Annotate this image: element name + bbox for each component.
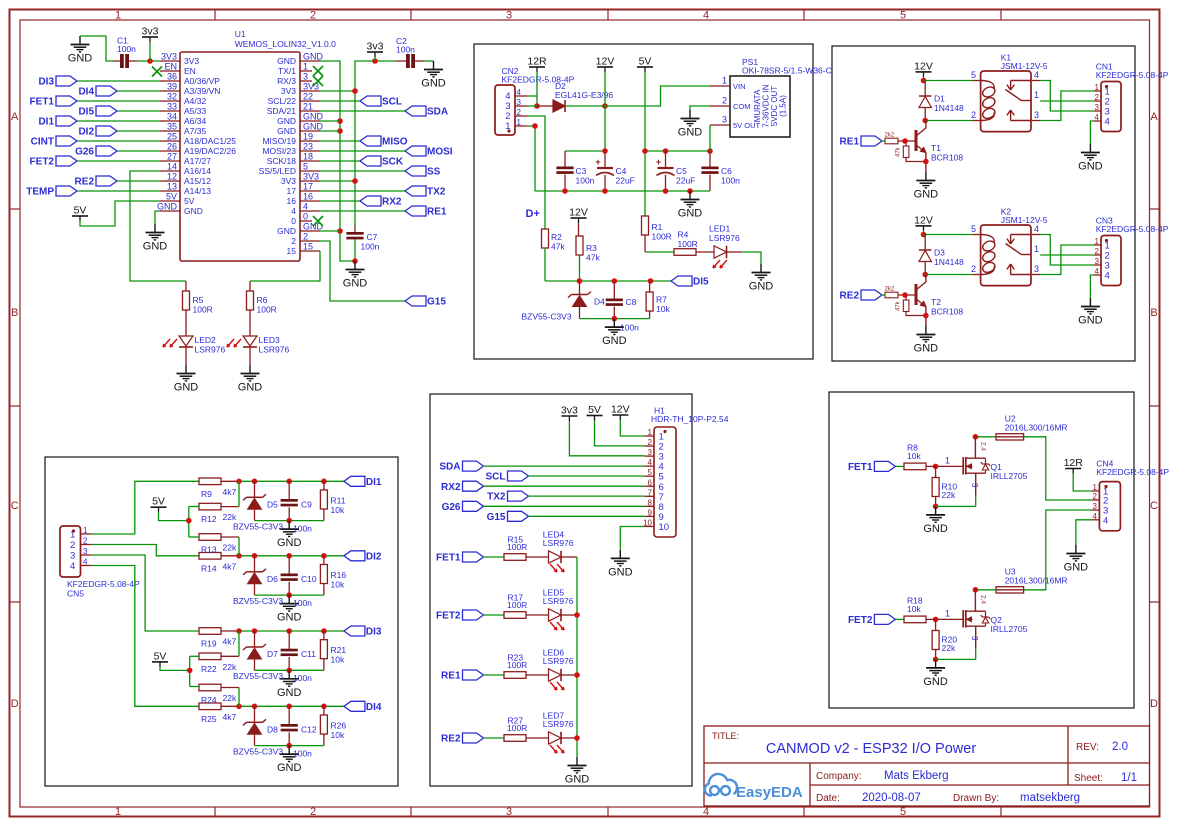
svg-text:0: 0 [291,216,296,226]
svg-text:3: 3 [517,98,522,107]
svg-text:18: 18 [303,152,313,162]
svg-text:R11: R11 [331,495,346,505]
svg-text:A3/39/VN: A3/39/VN [184,86,220,96]
svg-text:A5/33: A5/33 [184,106,206,116]
svg-text:DI3: DI3 [38,77,54,88]
svg-text:1/1: 1/1 [1121,772,1137,784]
svg-text:KF2EDGR-5.08-4P: KF2EDGR-5.08-4P [1096,70,1169,80]
svg-text:2: 2 [517,108,522,117]
svg-text:SDA/21: SDA/21 [267,106,297,116]
svg-text:12R: 12R [527,56,547,68]
svg-text:C12: C12 [301,724,317,734]
svg-text:10k: 10k [907,604,921,614]
svg-text:47k: 47k [551,242,565,252]
svg-text:WEMOS_LOLIN32_V1.0.0: WEMOS_LOLIN32_V1.0.0 [235,39,336,49]
svg-text:JSM1-12V-5: JSM1-12V-5 [1001,61,1048,71]
svg-text:DI4: DI4 [366,702,382,713]
svg-text:GND: GND [678,208,703,220]
svg-text:16: 16 [303,192,313,202]
svg-text:A4/32: A4/32 [184,96,206,106]
svg-text:LSR976: LSR976 [709,233,740,243]
svg-text:GND: GND [749,281,774,293]
svg-text:GND: GND [1064,562,1089,574]
svg-text:GND: GND [157,202,178,212]
svg-text:R7: R7 [656,295,667,305]
svg-text:C9: C9 [301,499,312,509]
svg-text:VIN: VIN [733,82,746,91]
svg-text:1: 1 [517,118,522,127]
svg-text:3V3: 3V3 [303,172,319,182]
svg-text:+: + [656,157,661,167]
svg-text:RE2: RE2 [840,291,860,302]
svg-text:Sheet:: Sheet: [1074,773,1103,784]
svg-text:14: 14 [167,162,177,172]
svg-text:26: 26 [167,142,177,152]
svg-text:47k: 47k [896,146,902,157]
svg-text:5: 5 [971,70,976,80]
svg-text:22k: 22k [223,543,237,553]
svg-text:LSR976: LSR976 [543,538,574,548]
svg-text:3: 3 [303,72,308,82]
svg-text:100R: 100R [507,600,527,610]
svg-text:2: 2 [303,232,308,242]
svg-text:R5: R5 [193,295,204,305]
svg-text:12R: 12R [1064,457,1084,469]
svg-text:9: 9 [648,508,653,517]
svg-text:C11: C11 [301,649,316,659]
svg-text:C: C [11,500,19,512]
svg-text:A6/34: A6/34 [184,116,206,126]
svg-text:0: 0 [303,212,308,222]
svg-text:2: 2 [1093,492,1098,501]
svg-text:33: 33 [167,102,177,112]
svg-text:BZV55-C3V3: BZV55-C3V3 [233,746,283,756]
svg-text:A14/13: A14/13 [184,186,211,196]
svg-text:C: C [1150,500,1158,512]
svg-text:100R: 100R [678,239,698,249]
svg-text:G15: G15 [427,297,446,308]
svg-text:12V: 12V [569,207,588,219]
svg-text:BCR108: BCR108 [931,307,963,317]
svg-text:SS/5/LED: SS/5/LED [259,166,296,176]
svg-text:1: 1 [115,10,121,22]
svg-text:100R: 100R [257,305,277,315]
svg-text:15: 15 [303,242,313,252]
svg-text:BZV55-C3V3: BZV55-C3V3 [233,521,283,531]
svg-text:CANMOD v2 - ESP32 I/O Power: CANMOD v2 - ESP32 I/O Power [766,741,976,757]
svg-text:10k: 10k [331,730,345,740]
svg-text:1N4148: 1N4148 [934,257,964,267]
svg-text:5: 5 [303,162,308,172]
svg-text:TX/1: TX/1 [278,66,296,76]
svg-text:47k: 47k [586,253,600,263]
svg-text:GND: GND [277,762,302,774]
svg-text:2: 2 [1095,93,1100,102]
svg-text:R3: R3 [586,243,597,253]
svg-text:R14: R14 [201,563,217,573]
svg-text:SS: SS [427,167,441,178]
svg-text:13: 13 [167,182,177,192]
svg-text:15: 15 [287,246,297,256]
svg-text:R21: R21 [331,645,347,655]
svg-text:36: 36 [167,72,177,82]
svg-text:3: 3 [1095,103,1100,112]
svg-text:R25: R25 [201,714,217,724]
svg-text:IRLL2705: IRLL2705 [991,471,1028,481]
svg-text:FET2: FET2 [848,615,873,626]
svg-text:2,4: 2,4 [980,442,987,451]
svg-text:10k: 10k [907,451,921,461]
svg-text:1: 1 [1034,244,1039,254]
svg-text:25: 25 [167,132,177,142]
svg-text:100n: 100n [721,176,740,186]
svg-text:LED2: LED2 [195,335,217,345]
svg-text:35: 35 [167,122,177,132]
svg-text:G26: G26 [442,502,461,513]
svg-text:TX2: TX2 [427,187,446,198]
svg-text:12V: 12V [914,60,933,72]
svg-text:5: 5 [900,806,906,818]
svg-text:MISO/19: MISO/19 [262,136,296,146]
svg-text:100n: 100n [396,45,415,55]
svg-text:KF2EDGR-5.08-4P: KF2EDGR-5.08-4P [1096,467,1169,477]
svg-text:GND: GND [923,523,948,535]
svg-text:GND: GND [277,116,296,126]
svg-text:DI2: DI2 [78,127,94,138]
svg-text:4: 4 [1095,113,1100,122]
svg-text:3V3: 3V3 [161,52,177,62]
svg-text:22k: 22k [223,512,237,522]
svg-text:2: 2 [971,110,976,120]
svg-text:A15/12: A15/12 [184,176,211,186]
svg-text:D+: D+ [526,208,540,220]
svg-text:DI5: DI5 [78,107,94,118]
svg-text:2,4: 2,4 [980,595,987,604]
svg-text:Mats Ekberg: Mats Ekberg [884,770,949,782]
svg-text:Date:: Date: [816,793,840,804]
svg-text:R22: R22 [201,664,217,674]
svg-text:D5: D5 [267,499,278,509]
svg-text:C7: C7 [367,232,378,242]
svg-text:100n: 100n [293,523,312,533]
svg-text:100n: 100n [293,673,312,683]
svg-text:5V: 5V [184,196,195,206]
svg-text:3: 3 [83,547,88,556]
svg-text:1: 1 [303,62,308,72]
svg-text:2: 2 [310,806,316,818]
svg-text:SCK: SCK [382,157,404,168]
svg-text:FET2: FET2 [30,157,55,168]
svg-text:3: 3 [648,448,653,457]
svg-text:34: 34 [167,112,177,122]
svg-text:3v3: 3v3 [142,26,159,38]
svg-text:DI5: DI5 [693,277,709,288]
svg-text:(1.5A): (1.5A) [779,95,788,117]
svg-text:KF2EDGR-5.08-4P: KF2EDGR-5.08-4P [1096,224,1169,234]
svg-text:22uF: 22uF [676,176,695,186]
svg-text:D1: D1 [934,94,945,104]
svg-text:4: 4 [703,806,709,818]
svg-text:OKI-78SR-5/1.5-W36-C: OKI-78SR-5/1.5-W36-C [742,66,832,76]
svg-text:SDA: SDA [439,462,460,473]
svg-text:2.0: 2.0 [1112,741,1128,753]
svg-text:8: 8 [648,498,653,507]
svg-text:SCL: SCL [486,472,506,483]
svg-text:1: 1 [1095,237,1100,246]
svg-text:B: B [11,307,18,319]
svg-text:5V: 5V [154,650,167,662]
svg-text:RE1: RE1 [840,137,860,148]
svg-text:LSR976: LSR976 [543,656,574,666]
svg-text:4k7: 4k7 [223,487,237,497]
svg-text:100n: 100n [361,242,380,252]
svg-text:R13: R13 [201,545,217,555]
svg-text:4: 4 [70,561,75,572]
svg-text:4: 4 [1034,70,1039,80]
svg-text:GND: GND [565,774,590,786]
svg-text:22k: 22k [223,662,237,672]
svg-text:IRLL2705: IRLL2705 [991,624,1028,634]
svg-text:GND: GND [421,78,446,90]
svg-text:1: 1 [1034,90,1039,100]
svg-text:B: B [1150,307,1157,319]
svg-text:1: 1 [1095,83,1100,92]
svg-text:3: 3 [1093,502,1098,511]
svg-text:LSR976: LSR976 [195,345,226,355]
svg-text:100n: 100n [293,748,312,758]
svg-text:D4: D4 [594,297,605,307]
svg-text:5V: 5V [166,192,177,202]
svg-text:DI1: DI1 [38,117,54,128]
svg-text:C8: C8 [626,297,637,307]
svg-text:COM: COM [733,102,751,111]
svg-text:matsekberg: matsekberg [1020,792,1080,804]
svg-text:FET1: FET1 [436,553,461,564]
svg-text:R19: R19 [201,639,217,649]
svg-text:10: 10 [643,518,652,527]
svg-text:4: 4 [703,10,709,22]
svg-text:FET1: FET1 [30,97,55,108]
svg-text:R16: R16 [331,570,347,580]
svg-text:3: 3 [970,636,979,641]
svg-text:SDA: SDA [427,107,448,118]
svg-text:22uF: 22uF [616,176,635,186]
svg-text:R26: R26 [331,720,347,730]
svg-text:3V3: 3V3 [281,86,296,96]
svg-text:R1: R1 [652,222,663,232]
svg-text:3: 3 [70,551,75,562]
svg-text:4: 4 [291,206,296,216]
svg-text:A7/35: A7/35 [184,126,206,136]
svg-text:32: 32 [167,92,177,102]
svg-text:1: 1 [115,806,121,818]
svg-text:2016L300/16MR: 2016L300/16MR [1005,423,1068,433]
svg-text:C10: C10 [301,574,317,584]
svg-text:3: 3 [1034,110,1039,120]
svg-text:39: 39 [167,82,177,92]
svg-text:KF2EDGR-5.08-4P: KF2EDGR-5.08-4P [67,579,140,589]
svg-text:BCR108: BCR108 [931,153,963,163]
svg-text:5V: 5V [152,496,165,508]
svg-text:CN5: CN5 [67,589,84,599]
svg-text:HDR-TH_10P-P2.54: HDR-TH_10P-P2.54 [651,414,729,424]
svg-text:2: 2 [722,96,727,106]
svg-text:GND: GND [914,189,939,201]
svg-text:3: 3 [506,806,512,818]
svg-text:GND: GND [174,382,199,394]
svg-text:1: 1 [945,456,950,466]
svg-text:100R: 100R [652,232,672,242]
svg-text:MOSI: MOSI [427,147,453,158]
svg-text:3v3: 3v3 [561,405,578,417]
svg-text:MOSI/23: MOSI/23 [262,146,296,156]
svg-text:EasyEDA: EasyEDA [736,784,803,801]
svg-text:SCL: SCL [382,97,402,108]
svg-text:LED3: LED3 [259,335,281,345]
svg-text:LED1: LED1 [709,224,731,234]
svg-text:GND: GND [238,382,263,394]
svg-text:16: 16 [287,196,297,206]
svg-text:GND: GND [184,206,203,216]
svg-text:RX2: RX2 [382,197,402,208]
svg-text:JSM1-12V-5: JSM1-12V-5 [1001,215,1048,225]
svg-text:FET1: FET1 [848,462,873,473]
svg-text:RX2: RX2 [441,482,461,493]
svg-text:GND: GND [277,612,302,624]
svg-text:LSR976: LSR976 [543,719,574,729]
svg-text:2k2: 2k2 [885,133,895,139]
svg-text:BZV55-C3V3: BZV55-C3V3 [233,671,283,681]
svg-text:2020-08-07: 2020-08-07 [862,792,921,804]
svg-text:100R: 100R [507,542,527,552]
svg-text:3V3: 3V3 [281,176,296,186]
svg-text:GND: GND [303,122,324,132]
svg-text:GND: GND [277,56,296,66]
svg-text:100n: 100n [117,44,136,54]
svg-text:5V: 5V [639,56,652,68]
svg-text:1: 1 [83,526,88,535]
svg-text:Company:: Company: [816,771,862,782]
svg-text:100R: 100R [507,723,527,733]
svg-text:DI4: DI4 [78,87,94,98]
svg-text:DI1: DI1 [366,477,382,488]
svg-text:TX2: TX2 [487,492,506,503]
svg-text:LSR976: LSR976 [543,596,574,606]
svg-text:+: + [595,157,600,167]
svg-text:22: 22 [303,92,313,102]
svg-text:19: 19 [303,132,313,142]
svg-text:A19/DAC2/26: A19/DAC2/26 [184,146,236,156]
svg-text:2: 2 [83,537,88,546]
svg-text:4k7: 4k7 [223,637,237,647]
svg-text:GND: GND [303,52,324,62]
svg-text:3: 3 [1095,257,1100,266]
svg-text:6: 6 [648,478,653,487]
svg-text:4: 4 [1093,512,1098,521]
svg-text:4: 4 [517,88,522,97]
svg-text:2: 2 [971,264,976,274]
svg-text:3v3: 3v3 [367,41,384,53]
svg-text:4: 4 [303,202,308,212]
svg-text:REV:: REV: [1076,742,1099,753]
svg-text:R2: R2 [551,232,562,242]
svg-text:DI2: DI2 [366,551,382,562]
svg-text:C6: C6 [721,166,732,176]
svg-text:EN: EN [184,66,196,76]
svg-text:RX/3: RX/3 [277,76,296,86]
svg-text:R12: R12 [201,514,217,524]
svg-text:4: 4 [1034,224,1039,234]
svg-text:4k7: 4k7 [223,712,237,722]
svg-text:3: 3 [506,10,512,22]
svg-text:A17/27: A17/27 [184,156,211,166]
svg-text:4: 4 [1105,271,1110,282]
svg-text:3: 3 [1034,264,1039,274]
svg-text:22k: 22k [223,693,237,703]
svg-text:10k: 10k [331,579,345,589]
svg-text:R24: R24 [201,695,217,705]
svg-text:100R: 100R [193,305,213,315]
svg-text:A: A [1150,111,1158,123]
svg-text:GND: GND [923,676,948,688]
svg-text:GND: GND [303,112,324,122]
svg-text:22k: 22k [942,490,956,500]
svg-text:10k: 10k [331,655,345,665]
svg-text:RE1: RE1 [441,671,461,682]
svg-text:SCL/22: SCL/22 [268,96,297,106]
svg-text:2016L300/16MR: 2016L300/16MR [1005,576,1068,586]
svg-text:C5: C5 [676,166,687,176]
svg-text:GND: GND [143,241,168,253]
svg-text:12V: 12V [914,214,933,226]
svg-text:1: 1 [1093,483,1098,492]
svg-text:D7: D7 [267,649,278,659]
svg-text:23: 23 [303,142,313,152]
svg-text:4: 4 [1103,515,1108,526]
svg-text:A: A [11,111,19,123]
svg-text:GND: GND [608,566,633,578]
svg-text:12V: 12V [611,404,630,416]
svg-text:C3: C3 [576,166,587,176]
svg-text:2: 2 [648,438,653,447]
svg-text:CINT: CINT [31,137,54,148]
svg-text:TEMP: TEMP [26,187,54,198]
svg-text:2: 2 [1095,247,1100,256]
svg-text:10k: 10k [656,304,670,314]
svg-text:RE1: RE1 [427,207,447,218]
svg-text:100R: 100R [507,660,527,670]
svg-text:5V: 5V [588,404,601,416]
svg-text:3V3: 3V3 [184,56,199,66]
svg-text:D8: D8 [267,724,278,734]
svg-text:10k: 10k [331,505,345,515]
svg-text:1N4148: 1N4148 [934,103,964,113]
svg-text:1: 1 [945,609,950,619]
svg-text:4: 4 [1105,117,1110,128]
svg-text:GND: GND [277,687,302,699]
svg-text:3: 3 [722,115,727,125]
svg-text:17: 17 [303,182,313,192]
svg-text:21: 21 [303,102,313,112]
svg-text:100n: 100n [576,176,595,186]
svg-text:2k2: 2k2 [885,287,895,293]
svg-text:D6: D6 [267,574,278,584]
svg-text:A18/DAC1/25: A18/DAC1/25 [184,136,236,146]
svg-text:SCK/18: SCK/18 [267,156,297,166]
svg-text:GND: GND [277,126,296,136]
svg-text:22k: 22k [942,643,956,653]
svg-text:GND: GND [277,226,296,236]
